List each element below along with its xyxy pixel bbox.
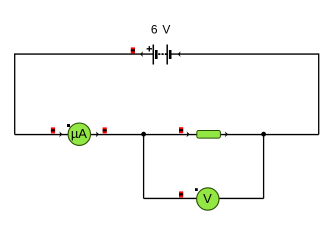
wire bottom horizontal [144,197,264,199]
current arrow right of battery (points left) [178,51,181,57]
battery cell 1 long plate [152,45,154,65]
test marker (left of resistor) [179,127,183,133]
svg-text:V: V [162,22,170,36]
battery cell 2 long plate [166,45,168,65]
battery dashed link [158,53,167,55]
wire top (right segment from battery) [171,53,319,55]
current arrow left of microammeter (points right) [59,131,62,137]
microammeter anchor dot [67,124,70,127]
test marker (right of microammeter) [103,127,107,133]
battery plus sign [147,46,152,51]
wire bottom-left vertical [143,134,145,198]
svg-text:6: 6 [151,22,158,36]
wire top (left segment to battery) [15,53,154,55]
current arrow left of battery (points left) [140,51,143,57]
voltmeter anchor dot [195,188,198,191]
battery label 6 V [151,22,171,36]
resistor R1 [197,131,221,139]
current arrow right of microammeter (points right) [96,131,99,137]
battery cell 1 short plate [155,50,158,59]
microammeter U1 [68,123,90,145]
battery cell 2 short plate [169,50,172,59]
test marker (left of microammeter) [51,127,55,133]
wire right vertical [318,53,320,134]
junction node left [141,132,146,137]
wire left vertical [14,53,16,134]
current arrow right of resistor (points right) [225,131,228,137]
current arrow left of resistor (points right) [187,131,190,137]
junction node right [261,132,266,137]
svg-text:V: V [203,191,212,206]
test marker (left of voltmeter) [179,191,183,197]
voltmeter U2 [197,188,219,210]
wire middle horizontal [15,134,319,136]
svg-text:µA: µA [71,126,87,141]
test marker (battery) [131,47,135,53]
wire bottom-right vertical [263,134,265,198]
